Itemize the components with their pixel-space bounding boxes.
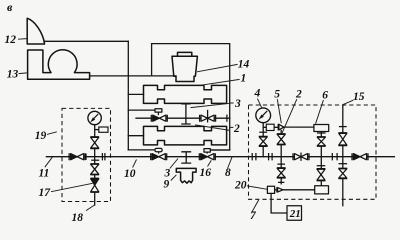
needle arrowhead (90, 117, 95, 122)
wire bottom nozzle to lower orifice (275, 189, 315, 191)
casing outline (open box) (152, 44, 230, 150)
leader 2 right box (282, 99, 297, 133)
pressure gauge 4 (256, 108, 271, 123)
leader 9 (171, 175, 177, 181)
pressure gauge (left box) (88, 111, 101, 124)
left gauge side-box connector wire (95, 129, 99, 131)
in-box valve row wire (136, 117, 230, 119)
union after gauge stack (269, 153, 273, 160)
svg-text:8: 8 (225, 167, 231, 179)
left gauge side box (99, 127, 108, 132)
square 20 (267, 186, 274, 193)
orifice 6 stem wire (320, 132, 322, 186)
control valve right box (293, 153, 309, 161)
pump 13 (28, 50, 90, 79)
union before line 15 (332, 153, 337, 160)
leader 16 (208, 160, 212, 166)
in-box row valve left (151, 109, 167, 122)
wire manifold to pill actuator of valve 3 (128, 149, 155, 151)
wire valve 16 actuator to casing (210, 149, 229, 151)
leader 17 (51, 183, 93, 191)
valve line 15 below (338, 164, 347, 179)
compressor fin 12 (27, 18, 44, 44)
valve 17a (90, 160, 99, 175)
dashed enclosure 19 (62, 108, 111, 201)
wire manifold to engine 2 (128, 135, 143, 137)
svg-text:5: 5 (274, 89, 280, 101)
bottom nozzle seat (276, 187, 278, 192)
leader 3 main (170, 159, 178, 169)
engine 1 (144, 85, 227, 103)
svg-text:9: 9 (164, 178, 170, 190)
svg-text:3: 3 (234, 98, 241, 110)
svg-text:13: 13 (7, 69, 19, 81)
svg-text:17: 17 (39, 187, 52, 199)
manifold riser wire (127, 41, 129, 150)
svg-text:21: 21 (289, 208, 301, 220)
wire from compressor 12 to manifold (44, 40, 128, 42)
lower orifice (315, 186, 329, 194)
wire nozzle 5 to orifice 6 (284, 126, 314, 128)
main pipeline (46, 156, 394, 158)
valve under gauge 4 (259, 132, 268, 146)
valve above line in left box (90, 137, 99, 149)
spool fitting 3 (in casing) (181, 104, 191, 124)
valve orifice 6 stack above (317, 133, 326, 146)
leader 6 (316, 100, 324, 124)
gauge 4 side box (266, 124, 274, 130)
valve 2 stem wire (280, 130, 282, 183)
svg-text:10: 10 (124, 168, 136, 180)
leader 15 (343, 100, 353, 104)
wire manifold to engine 1 (128, 93, 143, 95)
left gauge stack stem wire (94, 125, 96, 205)
engine 2 (144, 126, 227, 144)
svg-text:16: 16 (200, 167, 212, 179)
leader 13 (19, 72, 27, 75)
valve line 15 above (338, 127, 347, 146)
leader 2 casing (195, 125, 233, 130)
svg-text:12: 12 (5, 34, 17, 46)
valve 3 on main line (151, 148, 167, 160)
leader 1 (201, 79, 240, 85)
leader 12 (18, 38, 27, 41)
leader 20 (247, 186, 267, 190)
leader 14 (197, 64, 238, 71)
leader 18 (86, 205, 95, 211)
svg-text:2: 2 (295, 89, 302, 101)
svg-text:18: 18 (72, 212, 84, 224)
svg-text:20: 20 (234, 179, 247, 191)
drain funnel 9 (176, 168, 196, 183)
leader 3 casing (191, 103, 234, 108)
outlet valve right box (352, 153, 368, 160)
block 21 (287, 206, 302, 221)
wire from pump 13 into casing to tank 14 (90, 75, 176, 77)
valve 17b filled (90, 178, 99, 192)
union right box inlet (252, 153, 256, 160)
nozzle 5 seat (277, 124, 279, 131)
valve 2 stack below line (277, 164, 286, 182)
svg-text:6: 6 (322, 90, 328, 102)
bottom nozzle (278, 188, 283, 192)
leader 5 (277, 99, 281, 123)
needle arrowhead (259, 115, 264, 120)
valve 11 (69, 153, 86, 160)
in-box row valve right (200, 110, 227, 123)
valve 16 (199, 149, 215, 161)
svg-text:в: в (7, 0, 13, 14)
leader 19 (47, 132, 57, 135)
drain wire 15 (342, 105, 344, 206)
leader 10 (133, 160, 137, 168)
svg-text:4: 4 (254, 87, 261, 99)
valve orifice stack below (317, 166, 326, 181)
svg-text:7: 7 (250, 210, 257, 222)
svg-text:14: 14 (238, 59, 250, 71)
gauge 4 stem wire (262, 123, 264, 157)
leader 4 (257, 99, 261, 108)
leader 7 (252, 200, 259, 212)
svg-text:15: 15 (353, 91, 365, 103)
wire manifold to row valve actuator (128, 109, 155, 111)
svg-text:19: 19 (35, 130, 47, 142)
spool fitting 3 (on main line) (181, 152, 191, 163)
leader 11 (45, 157, 53, 167)
tank 14 lid (178, 52, 192, 56)
leader 8 (228, 157, 233, 168)
wire gauge box to nozzle 5 (263, 126, 278, 128)
union in left box (102, 153, 105, 160)
dashed enclosure 7 (249, 105, 377, 199)
tank 14 body (172, 56, 197, 81)
orifice 6 (314, 125, 329, 132)
nozzle 5 (279, 124, 284, 130)
valve 2 above line (277, 134, 286, 145)
svg-text:1: 1 (241, 73, 247, 85)
wire square 20 down to block 21 (271, 193, 287, 213)
svg-text:11: 11 (39, 167, 50, 179)
svg-text:2: 2 (233, 123, 240, 135)
